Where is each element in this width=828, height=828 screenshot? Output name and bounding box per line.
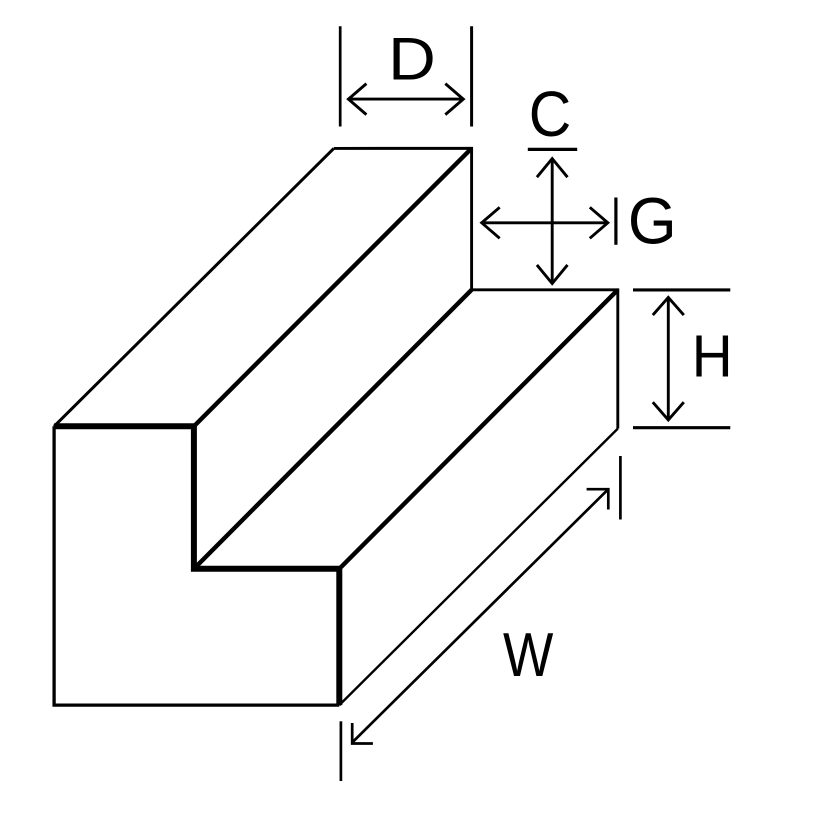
dimension D right tick xyxy=(470,26,473,126)
extrusion edge DD' (heavy) xyxy=(339,290,618,569)
svg-text:C: C xyxy=(529,79,572,151)
extrusion edge EE' xyxy=(339,429,618,705)
svg-text:D: D xyxy=(388,26,436,93)
extrusion edge CC' (heavy) xyxy=(194,290,472,569)
dimension W top tick xyxy=(619,456,622,520)
dimension H vertical double arrow xyxy=(653,297,684,420)
dimension C underline / extension line xyxy=(528,148,577,151)
dimension H top extension line xyxy=(633,288,730,291)
extrusion edge BB' (heavy) xyxy=(194,148,472,426)
dimension H bottom extension line xyxy=(633,426,730,429)
step block front L-face heavy edges A-B-C-D-E xyxy=(54,426,339,705)
step block front L-face light edges E-F-A xyxy=(54,426,339,705)
dimension G tick xyxy=(614,198,617,245)
svg-text:W: W xyxy=(503,621,554,690)
dimension C vertical double arrow xyxy=(537,159,568,284)
step block back edges A'-B'-C'-D'-E' xyxy=(334,148,618,428)
dimension W bottom tick xyxy=(340,721,343,781)
dimension D double arrow xyxy=(348,84,463,115)
dimension G horizontal double arrow xyxy=(482,207,608,238)
dimension W diagonal line with open arrowheads xyxy=(352,489,608,743)
svg-text:G: G xyxy=(628,184,677,258)
dimension D left tick xyxy=(339,26,342,126)
svg-text:H: H xyxy=(692,324,733,389)
extrusion edge AA' xyxy=(54,148,334,426)
